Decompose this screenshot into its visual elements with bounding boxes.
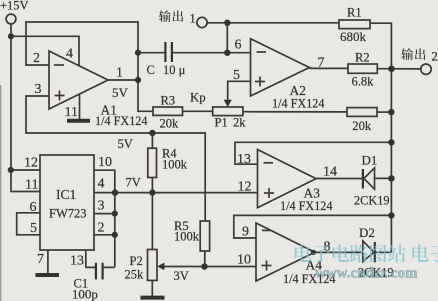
A4 inverting input minus sign [262, 229, 272, 231]
potentiometer P2 [148, 250, 158, 281]
node: cap junction [135, 50, 141, 56]
resistor R4 body [148, 148, 157, 177]
node 3V [201, 263, 207, 269]
op-amp A3 [258, 150, 317, 208]
ground bar for P2 [141, 296, 165, 300]
A3 inverting input minus sign [264, 162, 274, 164]
A4 plus sign horizontal [262, 265, 272, 267]
wire down to pin6 row [226, 23, 228, 53]
svg-text:5V: 5V [112, 85, 129, 100]
A3 plus sign horizontal [264, 192, 274, 194]
ground A1 [67, 119, 90, 123]
svg-text:3: 3 [98, 199, 105, 214]
svg-text:P1: P1 [215, 116, 228, 130]
svg-text:Kp: Kp [190, 91, 206, 105]
resistor 20k feedback [347, 108, 377, 117]
node R4 bottom [149, 189, 155, 195]
wire: 5V rail to R4 top [151, 133, 153, 148]
wire: A4 out to D2 [315, 251, 363, 253]
A1 plus sign vertical [59, 91, 61, 101]
node: rail to IC1 pin 12 [8, 167, 14, 173]
wire: R1 right, corner down [370, 23, 391, 252]
svg-text:6.8k: 6.8k [352, 74, 375, 88]
wire: A1 pin 3 loop to 5V rail [26, 96, 205, 221]
svg-text:1/4 FX124: 1/4 FX124 [280, 199, 332, 213]
node: rail to A1 pin 4 [8, 33, 14, 39]
resistor R2 [348, 64, 377, 73]
wire: A3 pin13 feedback [235, 142, 391, 164]
diode D1 triangle [364, 168, 375, 189]
svg-text:11: 11 [65, 105, 78, 120]
wire: D1 to feedback rail [375, 177, 392, 179]
wire: out1 to R1 [207, 22, 339, 24]
A2 plus sign vertical [259, 77, 261, 87]
resistor R5 [200, 221, 209, 251]
svg-text:20k: 20k [160, 117, 180, 131]
A4 plus sign vertical [266, 261, 268, 271]
svg-text:2k: 2k [233, 116, 246, 130]
svg-text:P2: P2 [130, 254, 143, 268]
diode D2 cathode bar [374, 242, 376, 262]
svg-text:11: 11 [25, 178, 38, 193]
svg-text:12: 12 [238, 180, 252, 195]
svg-text:10: 10 [98, 155, 112, 170]
wire: C right plate to A2 pin 6 [172, 52, 251, 54]
node: pin 3 on bus [112, 211, 118, 217]
svg-text:R1: R1 [347, 6, 362, 20]
+15V terminal [6, 14, 16, 24]
svg-text:680k: 680k [340, 29, 367, 44]
svg-text:1: 1 [116, 66, 123, 81]
svg-text:2: 2 [432, 50, 438, 64]
wire: IC1 pin 7 ground stub [47, 250, 49, 273]
node: A4 output apex [311, 250, 316, 255]
svg-text:+15V: +15V [0, 0, 29, 13]
IC1 box [40, 155, 94, 250]
输出2 label [401, 48, 425, 60]
svg-text:C: C [147, 63, 155, 77]
node out2 [388, 66, 395, 73]
resistor R1 [339, 20, 370, 29]
wire: R2 to out2 [377, 68, 420, 70]
svg-text:2: 2 [33, 51, 40, 66]
wire: C1 right plate to bus [104, 266, 115, 268]
wire: cap row to A2 pin 6 [138, 52, 165, 54]
output1 terminal [197, 17, 207, 27]
watermark line 1 [295, 244, 438, 262]
svg-text:D1: D1 [362, 153, 378, 168]
svg-text:100k: 100k [162, 157, 188, 171]
capacitor C1 left plate [95, 263, 97, 280]
wire: P1 to 20k [243, 111, 347, 113]
svg-text:25k: 25k [125, 268, 145, 282]
svg-text:12: 12 [24, 156, 38, 171]
wire 20k to node [377, 111, 391, 113]
P2 bottom to ground [151, 280, 153, 295]
wire: D2 to feedback rail corner [375, 251, 392, 253]
node: feedback rail to A4 pin 9 [388, 212, 394, 218]
node: pin 2 on bus [112, 232, 118, 238]
A1 plus sign horizontal [55, 95, 65, 97]
svg-text:7V: 7V [126, 176, 141, 190]
wire: R3 to P1 [183, 110, 213, 112]
capacitor C right plate [171, 42, 173, 62]
wire: vertical A1 output to R3 row [138, 53, 153, 112]
svg-text:100p: 100p [72, 286, 98, 301]
left edge scan artifact [0, 85, 1, 301]
svg-text:13: 13 [70, 254, 84, 269]
node pin6 row [224, 50, 230, 56]
wiper row: P2 to A4 pin10 [164, 266, 256, 268]
wire: R5 bottom to 3V node [204, 251, 206, 267]
P2 wiper arrow [157, 263, 164, 271]
A3 plus sign vertical [268, 188, 270, 198]
svg-text:1: 1 [190, 12, 196, 26]
svg-text:3V: 3V [174, 269, 189, 283]
svg-text:FW723: FW723 [49, 207, 87, 221]
wire: IC1 pin 12 stub [11, 169, 40, 171]
wire: IC1 pin 2 stub [94, 234, 115, 236]
node out1 [224, 20, 230, 26]
7V rail [94, 192, 258, 194]
wire: A1 pin 2 loop up and over to C [26, 22, 138, 65]
wire: A2 pin5 to P1 wiper [228, 81, 251, 100]
IC1 pin 10 wire [94, 170, 115, 192]
potentiometer P1 [213, 107, 243, 116]
svg-text:4: 4 [66, 47, 73, 62]
op-amp A4 [256, 223, 315, 281]
ground bar for IC1 pin 7 [36, 273, 60, 277]
diode D1 cathode bar [362, 169, 364, 189]
wire: A3 out to D1 [316, 178, 362, 180]
svg-text:10: 10 [237, 253, 251, 268]
IC1 pins 6-5 loop [17, 213, 40, 235]
svg-text:IC1: IC1 [56, 187, 76, 202]
op-amp A1 [49, 51, 108, 109]
A1 pin 11 ground stub [79, 94, 81, 119]
svg-text:14: 14 [323, 165, 337, 180]
wire: left supply rail down to IC1 pin 11 [11, 24, 40, 192]
A2 inverting input minus sign [257, 51, 267, 53]
A1 inverting input minus sign [54, 64, 64, 66]
P1 wiper arrow [224, 100, 232, 107]
svg-text:10 μ: 10 μ [163, 63, 186, 77]
wire: IC1 pin 13 to C1 [86, 250, 95, 267]
A2 plus sign horizontal [255, 81, 265, 83]
capacitor C left plate [164, 42, 166, 62]
node: feedback rail to A3 pin 13 [388, 139, 394, 145]
node: D1 on feedback rail [388, 175, 395, 182]
svg-text:D2: D2 [359, 225, 375, 240]
svg-text:7: 7 [37, 252, 44, 267]
op-amp A2 [251, 39, 310, 96]
wire: +15V to A1 pin 4 [11, 36, 79, 66]
svg-text:1/4 FX124: 1/4 FX124 [272, 96, 324, 110]
output2 terminal [421, 64, 431, 74]
node R4 top [149, 130, 155, 136]
svg-text:www.cndzz.com: www.cndzz.com [315, 265, 418, 281]
vertical bus right of IC1 [114, 193, 116, 268]
resistor R3 [153, 107, 183, 115]
svg-text:5: 5 [30, 221, 37, 236]
wire: A1 output node [108, 79, 138, 81]
wire: IC1 pin 3 stub [94, 213, 115, 215]
svg-text:4: 4 [98, 177, 105, 192]
wire: R4 bottom through 7V node down to P2 top [151, 178, 153, 250]
node: A1 output [135, 77, 141, 83]
svg-text:6: 6 [235, 38, 242, 53]
capacitor C1 right plate [101, 263, 103, 280]
svg-text:1/4 FX124: 1/4 FX124 [95, 114, 147, 128]
svg-text:20k: 20k [352, 119, 372, 133]
svg-text:2: 2 [98, 221, 105, 236]
svg-text:R3: R3 [161, 94, 176, 108]
node pin4 [112, 189, 118, 195]
wire: A4 pin9 feedback [234, 215, 392, 238]
svg-text:9: 9 [242, 225, 249, 240]
svg-text:2CK19: 2CK19 [354, 194, 390, 208]
wire: A2 out to R2 [309, 67, 348, 69]
svg-text:R2: R2 [355, 51, 370, 65]
diode D2 triangle [363, 241, 374, 262]
svg-text:5V: 5V [118, 137, 133, 151]
node 20k [388, 109, 394, 115]
svg-text:100k: 100k [174, 229, 200, 243]
输出1 label [159, 10, 183, 22]
svg-text:3: 3 [35, 82, 42, 97]
